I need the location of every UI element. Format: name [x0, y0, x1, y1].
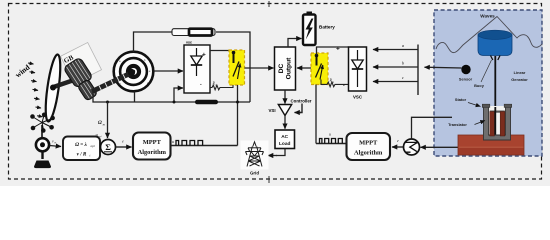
- wave energy panel (blue, dashed): [434, 10, 542, 156]
- wire: S1 output to DC box: [245, 67, 274, 69]
- svg-text:Grid: Grid: [250, 171, 259, 176]
- svg-text:u: u: [172, 139, 174, 144]
- wire: VSI to AC load: [284, 116, 286, 129]
- svg-text:Buoy: Buoy: [474, 83, 485, 88]
- sensor wire arrow into bus: [425, 66, 462, 69]
- buoy top: [478, 30, 512, 39]
- gearbox small gear: [77, 79, 98, 101]
- boost switch S2 (yellow): [311, 53, 328, 85]
- error arrow e to MPPT: [116, 146, 132, 148]
- DC Output block: [275, 47, 296, 90]
- svg-text:Translator: Translator: [448, 122, 467, 127]
- anemometer sensor: [30, 113, 55, 169]
- phase line b: [373, 66, 418, 68]
- svg-text:t: t: [90, 154, 91, 158]
- svg-text:DC: DC: [278, 64, 285, 74]
- wire: stator feedback elbow to summer top: [412, 117, 453, 138]
- svg-text:+: +: [202, 52, 206, 59]
- buoy body: [478, 35, 512, 56]
- buoy legs: [491, 56, 493, 61]
- svg-text:MPPT: MPPT: [359, 140, 378, 147]
- svg-text:Ω: Ω: [98, 121, 102, 126]
- svg-text:e: e: [397, 138, 399, 143]
- wind speed arrow vw: [50, 146, 62, 147]
- svg-text:e: e: [122, 139, 124, 144]
- svg-text:Controller: Controller: [291, 99, 312, 104]
- VSI triangle: [278, 105, 291, 116]
- generator shaft from gearbox: [92, 69, 135, 92]
- svg-text:Algorithm: Algorithm: [354, 150, 383, 157]
- gate wire S1 from MPPT pulses: [237, 85, 239, 146]
- boost switch S1 (yellow): [229, 50, 245, 85]
- svg-text:+: +: [336, 46, 340, 53]
- phase line c: [373, 81, 418, 83]
- svg-text:Genrator: Genrator: [511, 77, 528, 82]
- svg-text:Σ: Σ: [105, 142, 111, 152]
- wire: L1 to vertical drop: [216, 32, 250, 102]
- junction rail/rectifier tap: [173, 101, 176, 104]
- MPPT Algorithm block 2: [347, 133, 391, 160]
- VSC rectifier box: [349, 47, 367, 91]
- rectifier U1 box: [184, 45, 210, 93]
- VSC diode D2: [352, 50, 363, 87]
- svg-text:Linear: Linear: [514, 70, 526, 75]
- wind turbine blade: [43, 54, 63, 123]
- translator magnets: [490, 107, 505, 136]
- piston rod: [494, 56, 496, 134]
- wire: AC load to grid: [276, 149, 285, 156]
- wire: rectifier + to switch S1 top: [210, 51, 231, 53]
- battery: [303, 12, 316, 46]
- gate pulse wire to MPPT2: [316, 143, 347, 145]
- AC Load block: [275, 130, 295, 149]
- turbine shaft to gearbox: [52, 80, 74, 88]
- outer system boundary (dashed): [9, 4, 542, 180]
- svg-text:Waves: Waves: [480, 14, 495, 19]
- gearbox GB housing: [60, 42, 101, 83]
- summer S2 circle: [404, 139, 420, 155]
- gate pulse wire from MPPT1: [171, 145, 238, 147]
- svg-text:c: c: [402, 75, 404, 80]
- top center tick: [268, 1, 270, 7]
- resistor Rw and wire to switch S1 bottom: [210, 85, 233, 90]
- bottom center tick: [268, 176, 270, 183]
- wire: S2 top to VSC box: [317, 47, 349, 55]
- svg-text:w: w: [54, 142, 56, 145]
- speed tap wire to summer: [107, 102, 109, 138]
- svg-text:u: u: [329, 132, 331, 137]
- grid tower background: [241, 141, 269, 170]
- inductor L1 (top): [172, 29, 215, 36]
- wire: generator right to rectifier (phase 1): [154, 70, 184, 72]
- PWM pulses 1: [176, 141, 203, 146]
- svg-text:ref: ref: [99, 135, 102, 138]
- gearbox big gear: [63, 57, 93, 88]
- wind arrows: [28, 63, 43, 117]
- bottom rail wire: [93, 92, 250, 102]
- PWM pulses 2: [320, 139, 343, 144]
- tip speed ratio block: [63, 137, 100, 161]
- svg-text:VSC: VSC: [353, 95, 363, 100]
- svg-text:MPPT: MPPT: [143, 139, 162, 146]
- stator housing: [482, 104, 511, 140]
- sensor dot: [461, 65, 470, 74]
- wire: rail tap up to rectifier (phase 2): [174, 88, 176, 102]
- svg-text:Output: Output: [286, 57, 293, 79]
- svg-text:Stator: Stator: [455, 97, 467, 102]
- svg-text:opt: opt: [91, 144, 95, 148]
- junction gate/rail crossing: [236, 101, 239, 104]
- wave profile curve: [436, 17, 542, 53]
- error arrow to MPPT2: [392, 146, 404, 148]
- seabed base block: [458, 135, 524, 155]
- svg-text:a: a: [402, 43, 404, 48]
- svg-text:Algorithm: Algorithm: [138, 149, 167, 156]
- turbine hub: [50, 85, 56, 91]
- Buoy label and leader: [481, 60, 492, 82]
- wire: S2 to DC box (left): [297, 67, 311, 69]
- phase bus: [417, 45, 419, 96]
- wire: translator to summer: [421, 146, 459, 148]
- wire: DC box top to battery: [288, 39, 294, 48]
- svg-text:Load: Load: [279, 141, 291, 147]
- controller elbow arrow: [300, 104, 302, 113]
- summer S1 circle: [101, 140, 116, 155]
- svg-text:Battery: Battery: [319, 25, 335, 30]
- svg-text:Sensor: Sensor: [459, 77, 473, 82]
- svg-text:VSI: VSI: [269, 108, 276, 113]
- generator G (PMSG): [114, 52, 154, 92]
- wire: generator top to inductor L1: [134, 32, 173, 52]
- wire: DC box bottom to VSI: [284, 90, 286, 104]
- gate wire S2: [315, 85, 317, 144]
- junction rail/speed tap: [106, 101, 109, 104]
- inductor L2 (rail): [195, 100, 218, 105]
- wire: generator bottom drop: [134, 92, 136, 103]
- svg-text:v / R: v / R: [77, 152, 87, 158]
- svg-text:b: b: [402, 61, 404, 66]
- resistor Rs wire: S2 bottom to VSC: [321, 80, 349, 87]
- MPPT Algorithm block 1: [133, 133, 171, 160]
- rectifier diode D1: [191, 48, 202, 76]
- svg-text:Ω = λ: Ω = λ: [75, 142, 87, 148]
- svg-text:vsc: vsc: [186, 40, 192, 44]
- svg-text:AC: AC: [281, 134, 288, 140]
- grid transmission tower: [246, 142, 264, 167]
- phase line a: [373, 49, 418, 51]
